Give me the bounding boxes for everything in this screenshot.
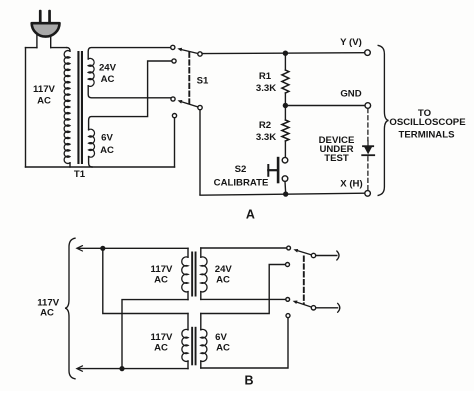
svg-text:24V: 24V (215, 264, 233, 275)
svg-text:117V: 117V (151, 264, 173, 275)
terminal Y (V) (365, 50, 371, 56)
junction node X/S2 (283, 191, 288, 196)
wire upper wiper to hook (316, 255, 337, 257)
switch B lower pole throw2 contact (286, 314, 290, 318)
svg-text:AC: AC (100, 145, 114, 156)
wire left rail (25, 48, 27, 167)
svg-text:AC: AC (37, 96, 51, 107)
brace to oscilloscope (378, 45, 388, 195)
svg-text:X (H): X (H) (340, 178, 362, 189)
transformer upper core (191, 252, 193, 297)
wire GND line (285, 105, 364, 107)
wire 6V bottom to switch lower throw2 (201, 318, 288, 368)
AC plug P1 (32, 10, 60, 48)
switch S1 upper pole wiper arm (182, 50, 200, 54)
device under test dashed connection (367, 109, 369, 141)
svg-text:TERMINALS: TERMINALS (399, 129, 456, 140)
svg-text:B: B (244, 374, 253, 388)
transformer T1 core (77, 51, 79, 164)
svg-text:T1: T1 (74, 169, 86, 180)
wire riser to S1 lower throw2 (174, 118, 176, 167)
switch S1 lower pole throw 6V contact (172, 114, 176, 118)
svg-text:3.3K: 3.3K (256, 132, 276, 143)
wire Y line (202, 52, 365, 55)
switch B upper pole wiper arm (298, 251, 314, 256)
svg-text:R1: R1 (259, 71, 272, 82)
transformer upper secondary 24V (200, 248, 202, 257)
junction node GND/R2 (283, 103, 288, 108)
resistor R1 3.3K (284, 53, 286, 70)
device under test diode symbol (362, 141, 374, 155)
switch B gang dashed link (303, 257, 305, 304)
svg-text:AC: AC (216, 343, 230, 354)
wire top rail with arrow (79, 247, 189, 249)
wire 6V top to switch upper throw2 (201, 265, 286, 314)
switch S1 lower pole wiper arm (182, 102, 200, 108)
hook terminal upper (337, 251, 339, 260)
terminal X (H) (365, 191, 371, 197)
svg-text:117V: 117V (33, 84, 55, 95)
wire lower wiper to hook (316, 307, 338, 309)
transformer lower primary 117V (187, 314, 189, 330)
transformer lower secondary 6V (200, 314, 202, 330)
svg-text:AC: AC (154, 275, 168, 286)
transformer lower core (191, 327, 193, 366)
junction node Y/R1 (283, 51, 288, 56)
junction node top rail (100, 246, 105, 251)
switch S1 gang dashed link (188, 53, 190, 104)
svg-text:S1: S1 (197, 76, 209, 87)
wire upper transformer primary bottom to bottom rail (122, 300, 188, 369)
switch S2 pushbutton CALIBRATE (282, 157, 288, 163)
svg-text:S2: S2 (235, 164, 247, 175)
switch S1 upper pole throw 24V contact (171, 45, 175, 49)
switch B lower pole throw1 contact (286, 298, 290, 302)
wire bottom rail (26, 166, 175, 168)
svg-text:Y (V): Y (V) (340, 37, 362, 48)
svg-text:AC: AC (216, 275, 230, 286)
switch S1 lower pole throw 24V contact (171, 97, 175, 101)
svg-text:A: A (246, 208, 255, 222)
wire from S1 lower wiper down (199, 110, 201, 195)
svg-text:3.3K: 3.3K (256, 83, 276, 94)
transformer upper primary 117V (187, 248, 189, 257)
brace 117V AC input (65, 238, 75, 379)
switch B lower pole wiper arm (297, 302, 314, 308)
wire plug right to primary top (51, 47, 67, 49)
transformer T1 secondary winding 24V (88, 48, 171, 59)
junction node bottom rail (119, 366, 124, 371)
switch S1 upper pole throw 6V contact (172, 59, 176, 63)
wire top rail to lower transformer primary (103, 248, 188, 313)
switch B upper pole throw1 contact (287, 246, 291, 250)
wire bottom rail with arrow (79, 368, 189, 370)
wire 24V top to switch (201, 247, 287, 249)
switch B upper pole throw2 contact (286, 263, 290, 267)
transformer T1 primary winding 117V (67, 48, 70, 52)
svg-text:OSCILLOSCOPE: OSCILLOSCOPE (389, 117, 466, 128)
hook terminal lower (338, 303, 340, 312)
transformer T1 secondary winding 6V (89, 61, 172, 130)
svg-text:AC: AC (40, 308, 54, 319)
svg-text:AC: AC (154, 343, 168, 354)
svg-text:R2: R2 (259, 120, 271, 131)
svg-text:24V: 24V (99, 63, 117, 74)
svg-text:CALIBRATE: CALIBRATE (214, 177, 269, 188)
svg-text:6V: 6V (101, 133, 113, 144)
wire plug left to left rail (26, 47, 37, 49)
wire X line (200, 193, 365, 195)
svg-text:GND: GND (340, 89, 361, 100)
resistor R2 3.3K (284, 106, 286, 121)
svg-text:AC: AC (101, 74, 115, 85)
svg-text:TEST: TEST (324, 153, 349, 164)
terminal GND (365, 103, 371, 109)
wire 24V bottom to switch lower throw (201, 298, 286, 300)
svg-text:6V: 6V (215, 332, 227, 343)
svg-text:117V: 117V (151, 332, 173, 343)
